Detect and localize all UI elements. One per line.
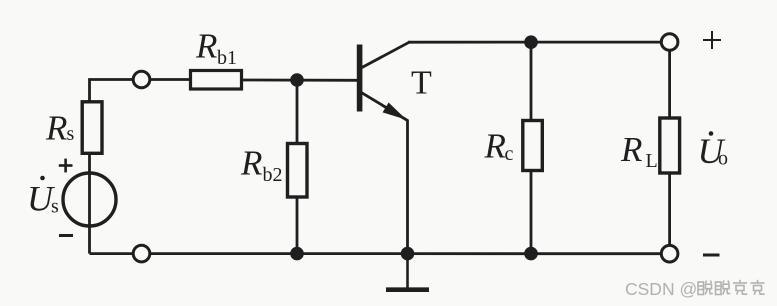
svg-text:R: R	[45, 109, 67, 148]
wire Rb1 to base	[242, 79, 358, 82]
source minus sign	[59, 234, 73, 237]
char ke1	[733, 280, 747, 295]
wire left rail through source	[88, 153, 91, 254]
char tuo1	[698, 281, 713, 295]
wire Rb2 top	[296, 80, 299, 144]
watermark CSDN	[625, 279, 765, 299]
node top rail junction	[524, 35, 538, 49]
label Uo	[698, 131, 729, 171]
transistor T collector lead	[361, 42, 409, 68]
svg-text:T: T	[411, 65, 432, 102]
svg-text:R: R	[620, 130, 642, 169]
wire bottom rail	[150, 252, 662, 255]
node Rc bottom junction	[524, 247, 538, 261]
input terminal (open circle, bottom)	[133, 245, 150, 262]
node Rb2 bottom junction	[290, 247, 304, 261]
svg-text:L: L	[646, 150, 658, 172]
resistor Rb2	[288, 144, 308, 198]
svg-text:s: s	[67, 123, 75, 145]
output minus sign	[703, 254, 720, 257]
label Rc	[484, 127, 514, 166]
wire Rb2 bottom	[296, 197, 299, 254]
wire Rc top	[530, 42, 533, 120]
transistor T base bar	[357, 45, 363, 112]
wire top-left corner to input terminal	[90, 80, 134, 105]
label RL	[620, 130, 658, 172]
wire emitter down	[406, 120, 409, 254]
label T	[411, 65, 432, 102]
svg-text:b1: b1	[217, 47, 237, 69]
wire Rc bottom	[530, 171, 533, 254]
resistor Rs	[82, 102, 102, 154]
svg-text:R: R	[195, 27, 217, 66]
wire RL top	[668, 50, 671, 118]
source Us circle	[63, 173, 116, 226]
wire collector top rail	[408, 41, 661, 44]
svg-text:b2: b2	[263, 164, 283, 186]
node base junction	[290, 73, 304, 87]
label Rb2	[240, 144, 283, 187]
output terminal plus (open circle, top right)	[661, 34, 678, 51]
output terminal minus (open circle, bottom right)	[661, 245, 678, 262]
svg-text:o: o	[718, 148, 728, 170]
svg-text:CSDN @: CSDN @	[625, 279, 697, 299]
label Us	[27, 176, 59, 219]
source plus sign	[59, 159, 73, 173]
ground	[386, 254, 429, 290]
resistor Rb1	[191, 71, 242, 90]
label Rs	[45, 109, 75, 148]
char tuo2	[716, 281, 731, 295]
input terminal (open circle, top)	[133, 71, 150, 88]
svg-text:c: c	[505, 143, 514, 165]
transistor T emitter lead with arrow	[361, 92, 408, 120]
label Rb1	[195, 27, 237, 70]
char ke2	[751, 280, 765, 295]
output plus sign	[703, 31, 721, 49]
wire terminal to Rb1	[150, 78, 191, 81]
resistor Rc	[523, 121, 543, 171]
svg-text:R: R	[484, 127, 506, 166]
wire bottom rail left	[90, 252, 134, 255]
resistor RL	[660, 118, 680, 173]
svg-text:s: s	[51, 196, 59, 218]
svg-text:R: R	[240, 144, 262, 183]
wire RL bottom	[668, 173, 671, 245]
node emitter bottom junction	[401, 247, 415, 261]
